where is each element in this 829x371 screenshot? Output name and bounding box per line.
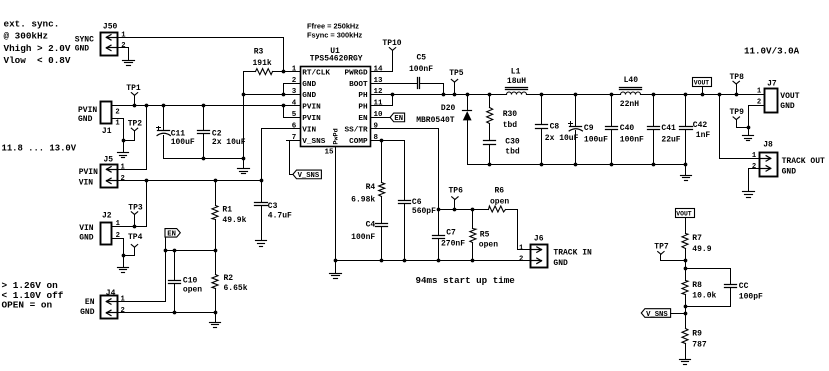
svg-text:MBR0540T: MBR0540T (416, 116, 455, 125)
svg-text:OPEN = on: OPEN = on (2, 300, 53, 311)
wire VIN rail (118, 179, 264, 183)
svg-text:TP10: TP10 (382, 39, 401, 48)
svg-text:C30: C30 (505, 137, 520, 146)
U1 pin 4 PVIN (292, 100, 321, 112)
node VOUT label at rail (693, 78, 712, 95)
svg-text:1: 1 (121, 31, 126, 39)
wire J50.2 to ground (118, 48, 129, 61)
svg-text:2: 2 (121, 175, 125, 183)
connector J1 (78, 102, 120, 136)
svg-text:VOUT: VOUT (780, 92, 799, 101)
capacitor C41 22uF (648, 95, 681, 165)
U1 pin 15 PwPd (324, 128, 340, 156)
svg-text:18uH: 18uH (507, 77, 526, 86)
U1 pin 8 COMP (349, 134, 378, 146)
svg-text:11.8 ... 13.0V: 11.8 ... 13.0V (2, 144, 77, 154)
svg-text:Fsync = 300kHz: Fsync = 300kHz (307, 30, 363, 39)
svg-text:9: 9 (374, 123, 379, 131)
svg-text:J8: J8 (763, 140, 773, 149)
svg-text:R3: R3 (254, 48, 264, 57)
svg-text:100pF: 100pF (739, 292, 763, 301)
test point TP9 (730, 108, 749, 128)
U1 pin 5 PVIN (292, 111, 321, 123)
wire EN node (164, 249, 218, 253)
svg-text:R4: R4 (366, 183, 376, 192)
U1 pin 3 GND (292, 88, 317, 100)
svg-text:R30: R30 (503, 110, 518, 119)
svg-text:GND: GND (78, 115, 93, 124)
svg-text:TP8: TP8 (730, 73, 745, 82)
test point TP3 (128, 203, 143, 226)
svg-text:D20: D20 (441, 104, 456, 113)
ground at input caps (238, 159, 250, 174)
inductor L1 18uH (506, 67, 528, 94)
svg-text:6.98k: 6.98k (351, 196, 375, 205)
ground at output caps (681, 165, 692, 181)
test point TP5 (449, 69, 464, 94)
diode D20 MBR0540T (416, 95, 471, 165)
wire R3 left to GND pins (242, 72, 246, 159)
wire U1 pin 15 to ground bus (334, 147, 338, 263)
resistor R1 49.9k (212, 181, 247, 251)
annotation ext sync (4, 18, 71, 65)
svg-text:GND: GND (80, 308, 95, 317)
svg-text:TP2: TP2 (128, 120, 143, 129)
wire U1 SS/TR pin 9 (371, 129, 441, 236)
svg-text:SS/TR: SS/TR (345, 127, 368, 135)
svg-text:V_SNS: V_SNS (302, 138, 325, 146)
svg-text:2x 10uF: 2x 10uF (212, 138, 246, 147)
connector J2 (79, 212, 120, 245)
svg-text:2: 2 (752, 163, 756, 171)
U1 pin 10 EN (358, 111, 383, 123)
svg-text:2: 2 (519, 256, 523, 264)
ground at U1 powerpad (330, 261, 342, 279)
svg-text:J1: J1 (102, 127, 112, 136)
svg-text:V_SNS: V_SNS (646, 311, 668, 319)
svg-text:R9: R9 (692, 329, 702, 338)
svg-text:C8: C8 (550, 122, 560, 131)
svg-text:191k: 191k (253, 59, 272, 68)
svg-text:R6: R6 (495, 186, 505, 195)
wire U1 PVIN pins 4-5 bracket (284, 106, 301, 118)
svg-text:100nF: 100nF (351, 233, 375, 242)
svg-text:C3: C3 (268, 202, 278, 211)
annotation switching frequency (307, 21, 363, 39)
svg-text:TRACK OUT: TRACK OUT (782, 157, 825, 166)
capacitor C8 2x 10uF (536, 95, 579, 165)
svg-text:C41: C41 (661, 124, 676, 133)
wire U1 PH pins 11-12 bracket (371, 95, 393, 106)
svg-text:SYNC: SYNC (75, 35, 94, 44)
svg-text:CC: CC (739, 282, 749, 291)
svg-text:15: 15 (324, 148, 334, 156)
wire SYNC J50.1 to RT/CLK (118, 38, 286, 74)
svg-text:C9: C9 (584, 124, 594, 133)
wire J2.1 to VIN rail (112, 181, 147, 229)
svg-text:1: 1 (121, 296, 126, 304)
wire J7.2 to ground (747, 106, 765, 136)
svg-text:11.0V/3.0A: 11.0V/3.0A (744, 45, 800, 56)
wire VOUT rail L1 to L40 (527, 93, 621, 97)
svg-text:EN: EN (167, 231, 176, 239)
capacitor C3 4.7uF (255, 181, 293, 241)
wire VOUT rail L40 to J7 (641, 93, 765, 97)
svg-text:@ 300kHz: @ 300kHz (4, 30, 49, 41)
svg-text:GND: GND (782, 168, 797, 177)
svg-text:4.7uF: 4.7uF (268, 212, 292, 221)
svg-text:R2: R2 (224, 274, 234, 283)
wire J1.2 to PVIN rail (112, 105, 121, 107)
svg-text:EN: EN (394, 115, 403, 123)
svg-text:2: 2 (121, 42, 125, 50)
svg-text:1: 1 (292, 65, 297, 73)
resistor R9 787 (682, 329, 707, 360)
svg-text:TP1: TP1 (126, 84, 141, 93)
node VOUT label at divider (676, 209, 695, 234)
svg-text:RT/CLK: RT/CLK (302, 69, 330, 77)
capacitor C7 270nF (433, 228, 466, 260)
capacitor C42 1nF (680, 95, 711, 165)
test point TP2 (124, 120, 143, 141)
svg-text:J5: J5 (104, 156, 114, 165)
svg-text:L1: L1 (511, 67, 521, 76)
U1 pin 13 BOOT (349, 77, 383, 89)
svg-text:TP5: TP5 (449, 69, 464, 78)
U1 pin 9 SS/TR (345, 123, 379, 135)
capacitor C4 100nF (351, 221, 387, 261)
svg-text:TRACK IN: TRACK IN (553, 248, 592, 257)
svg-text:C4: C4 (366, 221, 376, 230)
capacitor C2 2x 10uF (198, 106, 246, 159)
test point TP7 (654, 242, 685, 260)
connector J50 (75, 22, 127, 55)
svg-text:V_SNS: V_SNS (298, 172, 320, 180)
svg-text:1: 1 (752, 152, 757, 160)
svg-text:C10: C10 (183, 277, 198, 286)
wire PVIN rail (112, 104, 301, 108)
svg-text:J6: J6 (534, 235, 544, 244)
svg-text:787: 787 (692, 340, 707, 349)
svg-text:L40: L40 (624, 76, 639, 85)
svg-text:R7: R7 (692, 234, 702, 243)
connector J7 (757, 80, 800, 113)
test point TP6 (449, 186, 464, 209)
svg-text:PWRGD: PWRGD (345, 69, 368, 77)
svg-text:open: open (490, 198, 509, 207)
svg-text:C11: C11 (171, 129, 186, 138)
capacitor C5 100nF (371, 54, 444, 89)
capacitor C40 100nF (606, 95, 645, 165)
ground at R9 (680, 360, 691, 365)
svg-text:EN: EN (85, 298, 95, 307)
wire J4.2 ground line (118, 311, 218, 323)
ground at J8 (743, 192, 755, 198)
ground at C3 (256, 241, 267, 247)
svg-text:2x 10uF: 2x 10uF (545, 134, 579, 143)
svg-text:J2: J2 (102, 212, 112, 221)
wire J1.1 to ground (112, 119, 126, 153)
node V_SNS flag at U1 (293, 170, 322, 180)
annotation output rating (744, 45, 800, 56)
svg-text:R8: R8 (692, 281, 702, 290)
resistor R5 open (470, 210, 498, 261)
U1 left pin stubs (0, 0, 1, 1)
wire VIN rail to U1 pin 6 (262, 129, 301, 181)
svg-text:BOOT: BOOT (349, 81, 368, 89)
svg-text:2: 2 (121, 307, 125, 315)
svg-text:GND: GND (780, 102, 795, 111)
svg-text:94ms start up time: 94ms start up time (416, 275, 516, 286)
wire input cap ground bus (164, 157, 246, 161)
svg-text:C7: C7 (446, 228, 456, 237)
svg-text:1: 1 (121, 163, 126, 171)
U1 pin 7 V_SNS (292, 134, 326, 146)
annotation input voltage (2, 144, 77, 154)
wire SS node (439, 208, 489, 212)
wire U1 GND pins 2-3 bracket (244, 84, 301, 97)
wire output cap ground line (468, 163, 688, 167)
test point TP8 (730, 73, 745, 95)
svg-text:open: open (183, 286, 202, 295)
wire R6 to J6.1 (518, 210, 531, 250)
svg-text:49.9k: 49.9k (222, 216, 246, 225)
svg-text:TPS54620RGY: TPS54620RGY (310, 55, 363, 64)
svg-text:C2: C2 (212, 129, 222, 138)
svg-text:10.0k: 10.0k (692, 291, 716, 300)
capacitor C11 100uF (157, 106, 195, 159)
svg-text:J50: J50 (103, 22, 118, 31)
U1 pin 6 VIN (292, 123, 317, 135)
op-amp U1 TPS54620RGY body (301, 47, 371, 147)
svg-text:J4: J4 (106, 289, 116, 298)
svg-text:C40: C40 (620, 124, 635, 133)
ground at J4 line (210, 323, 221, 328)
capacitor C30 tbd (484, 137, 520, 164)
svg-text:GND: GND (79, 234, 94, 243)
svg-text:22uF: 22uF (661, 136, 680, 145)
wire ground bus (336, 259, 531, 263)
test point TP10 (382, 39, 401, 50)
node EN flag at R1/R2 (165, 229, 180, 251)
wire U1 pin 7 to V_SNS flag (287, 141, 301, 175)
capacitor C9 100uF (569, 95, 609, 165)
U1 pin 14 PWRGD (345, 65, 383, 77)
svg-text:GND: GND (302, 81, 316, 89)
svg-text:PH: PH (358, 92, 368, 100)
svg-text:22nH: 22nH (620, 100, 639, 109)
capacitor C10 open (169, 251, 203, 313)
svg-text:270nF: 270nF (441, 239, 465, 248)
svg-text:TP4: TP4 (128, 233, 143, 242)
wire U1 COMP pin 8 (371, 139, 405, 143)
svg-text:560pF: 560pF (412, 207, 436, 216)
svg-text:tbd: tbd (503, 121, 518, 130)
svg-text:14: 14 (374, 65, 384, 73)
svg-text:TP7: TP7 (654, 242, 669, 251)
svg-text:1nF: 1nF (696, 131, 711, 140)
svg-text:VIN: VIN (79, 224, 94, 233)
resistor R8 10.0k (682, 269, 717, 328)
svg-text:Vlow < 0.8V: Vlow < 0.8V (4, 55, 71, 66)
svg-text:open: open (479, 240, 498, 249)
wire J8.2 to ground (749, 169, 760, 192)
svg-text:100nF: 100nF (620, 136, 644, 145)
svg-text:11: 11 (374, 100, 384, 108)
svg-text:C5: C5 (417, 54, 427, 63)
svg-text:GND: GND (302, 92, 316, 100)
svg-text:PH: PH (358, 104, 368, 112)
svg-text:49.9: 49.9 (692, 245, 711, 254)
svg-text:VIN: VIN (302, 127, 316, 135)
svg-text:VIN: VIN (79, 179, 94, 188)
resistor R7 49.9 (682, 234, 712, 271)
annotation startup time (416, 275, 516, 286)
resistor R3 191k (244, 48, 301, 75)
capacitor CC 100pF (686, 269, 764, 307)
svg-text:2: 2 (115, 108, 119, 116)
svg-text:EN: EN (358, 115, 368, 123)
ground at J2 (118, 268, 129, 273)
annotation enable thresholds (2, 280, 64, 311)
connector J6 (519, 235, 592, 269)
ground at J7 (743, 136, 754, 141)
ground at J1 (118, 153, 129, 158)
wire VOUT to J8.1 (720, 95, 760, 159)
resistor R4 6.98k (351, 141, 385, 224)
ground at J50 (123, 61, 135, 66)
svg-text:PVIN: PVIN (79, 168, 98, 177)
wire BOOT to PH rail (442, 84, 446, 97)
svg-text:GND: GND (75, 44, 90, 53)
U1 pin 12 PH (358, 88, 383, 100)
svg-text:100uF: 100uF (171, 138, 195, 147)
resistor R6 open (489, 186, 518, 212)
node EN flag at U1 (390, 113, 405, 123)
svg-text:TP3: TP3 (128, 203, 143, 212)
wire J5.1 riser to PVIN rail (118, 106, 147, 170)
wire PH rail (371, 93, 507, 97)
U1 pin 1 RT/CLK (292, 65, 331, 77)
svg-text:R5: R5 (480, 230, 490, 239)
wire J2.2 to ground (112, 239, 126, 268)
svg-text:100uF: 100uF (584, 136, 608, 145)
svg-text:100nF: 100nF (409, 65, 433, 74)
svg-text:1: 1 (519, 244, 524, 252)
inductor L40 22nH (620, 76, 642, 109)
wire U1 PWRGD pin 14 to TP10 (371, 51, 393, 72)
svg-text:PwPd: PwPd (332, 128, 340, 144)
svg-text:1: 1 (757, 88, 762, 96)
svg-text:PVIN: PVIN (78, 106, 97, 115)
svg-text:ext. sync.: ext. sync. (4, 18, 60, 29)
svg-text:C6: C6 (412, 198, 422, 207)
resistor R30 tbd (487, 95, 518, 141)
svg-text:J7: J7 (767, 80, 777, 89)
node V_SNS flag at divider (641, 309, 685, 319)
test point TP1 (126, 84, 141, 106)
svg-text:6.65k: 6.65k (224, 284, 248, 293)
wire U1 EN pin 10 (371, 117, 391, 119)
svg-text:VOUT: VOUT (694, 80, 710, 87)
U1 pin 11 PH (358, 100, 383, 112)
capacitor C6 560pF (399, 141, 437, 261)
svg-text:PVIN: PVIN (302, 115, 321, 123)
test point TP4 (124, 233, 143, 255)
svg-text:4: 4 (292, 100, 297, 108)
svg-text:VOUT: VOUT (676, 210, 692, 217)
U1 pin 2 GND (292, 77, 317, 89)
svg-text:TP9: TP9 (730, 108, 745, 117)
svg-text:Vhigh > 2.0V: Vhigh > 2.0V (4, 43, 71, 54)
svg-text:tbd: tbd (505, 148, 520, 157)
svg-text:C42: C42 (693, 121, 708, 130)
svg-text:R1: R1 (222, 206, 232, 215)
svg-text:Ffree = 250kHz: Ffree = 250kHz (307, 21, 359, 30)
connector J5 (79, 156, 126, 188)
svg-text:GND: GND (553, 259, 568, 268)
wire J4.1 riser to EN node (118, 251, 166, 302)
svg-text:TP6: TP6 (449, 186, 464, 195)
svg-text:PVIN: PVIN (302, 104, 321, 112)
resistor R2 6.65k (212, 251, 248, 313)
connector J8 (752, 140, 825, 176)
svg-text:6: 6 (292, 123, 297, 131)
svg-text:1: 1 (115, 119, 120, 127)
connector J4 (80, 289, 125, 318)
svg-text:COMP: COMP (349, 138, 368, 146)
